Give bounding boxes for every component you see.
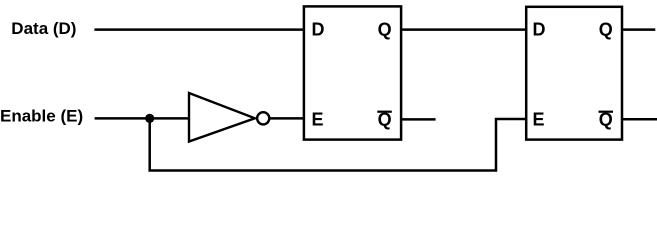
wire Q of latch 1 to D of latch 2 [402, 28, 527, 31]
wire Q of latch 2 output [622, 28, 655, 31]
latch U2 body [304, 6, 401, 139]
svg-text:Enable (E): Enable (E) [0, 107, 83, 126]
node junction on Enable line [145, 114, 154, 123]
svg-text:Q: Q [599, 20, 613, 40]
inverter U1 [189, 93, 269, 142]
svg-text:Data (D): Data (D) [11, 19, 76, 38]
wire Data input to D of latch 1 [94, 28, 303, 31]
pin Qbar of latch 1 [377, 109, 392, 129]
wire inverter output to E of latch 1 [270, 117, 304, 120]
svg-text:Q: Q [378, 20, 392, 40]
svg-text:E: E [312, 109, 324, 129]
pin Qbar of latch 2 [599, 109, 614, 129]
svg-text:E: E [533, 109, 545, 129]
latch U3 body [526, 7, 622, 140]
svg-text:D: D [533, 20, 546, 40]
wire Qbar of latch 1 stub [402, 118, 436, 121]
wire Qbar of latch 2 output [622, 118, 657, 121]
wire Enable feedback to E of latch 2 [150, 118, 526, 170]
svg-text:D: D [312, 20, 325, 40]
wire Enable input to inverter [95, 117, 190, 120]
